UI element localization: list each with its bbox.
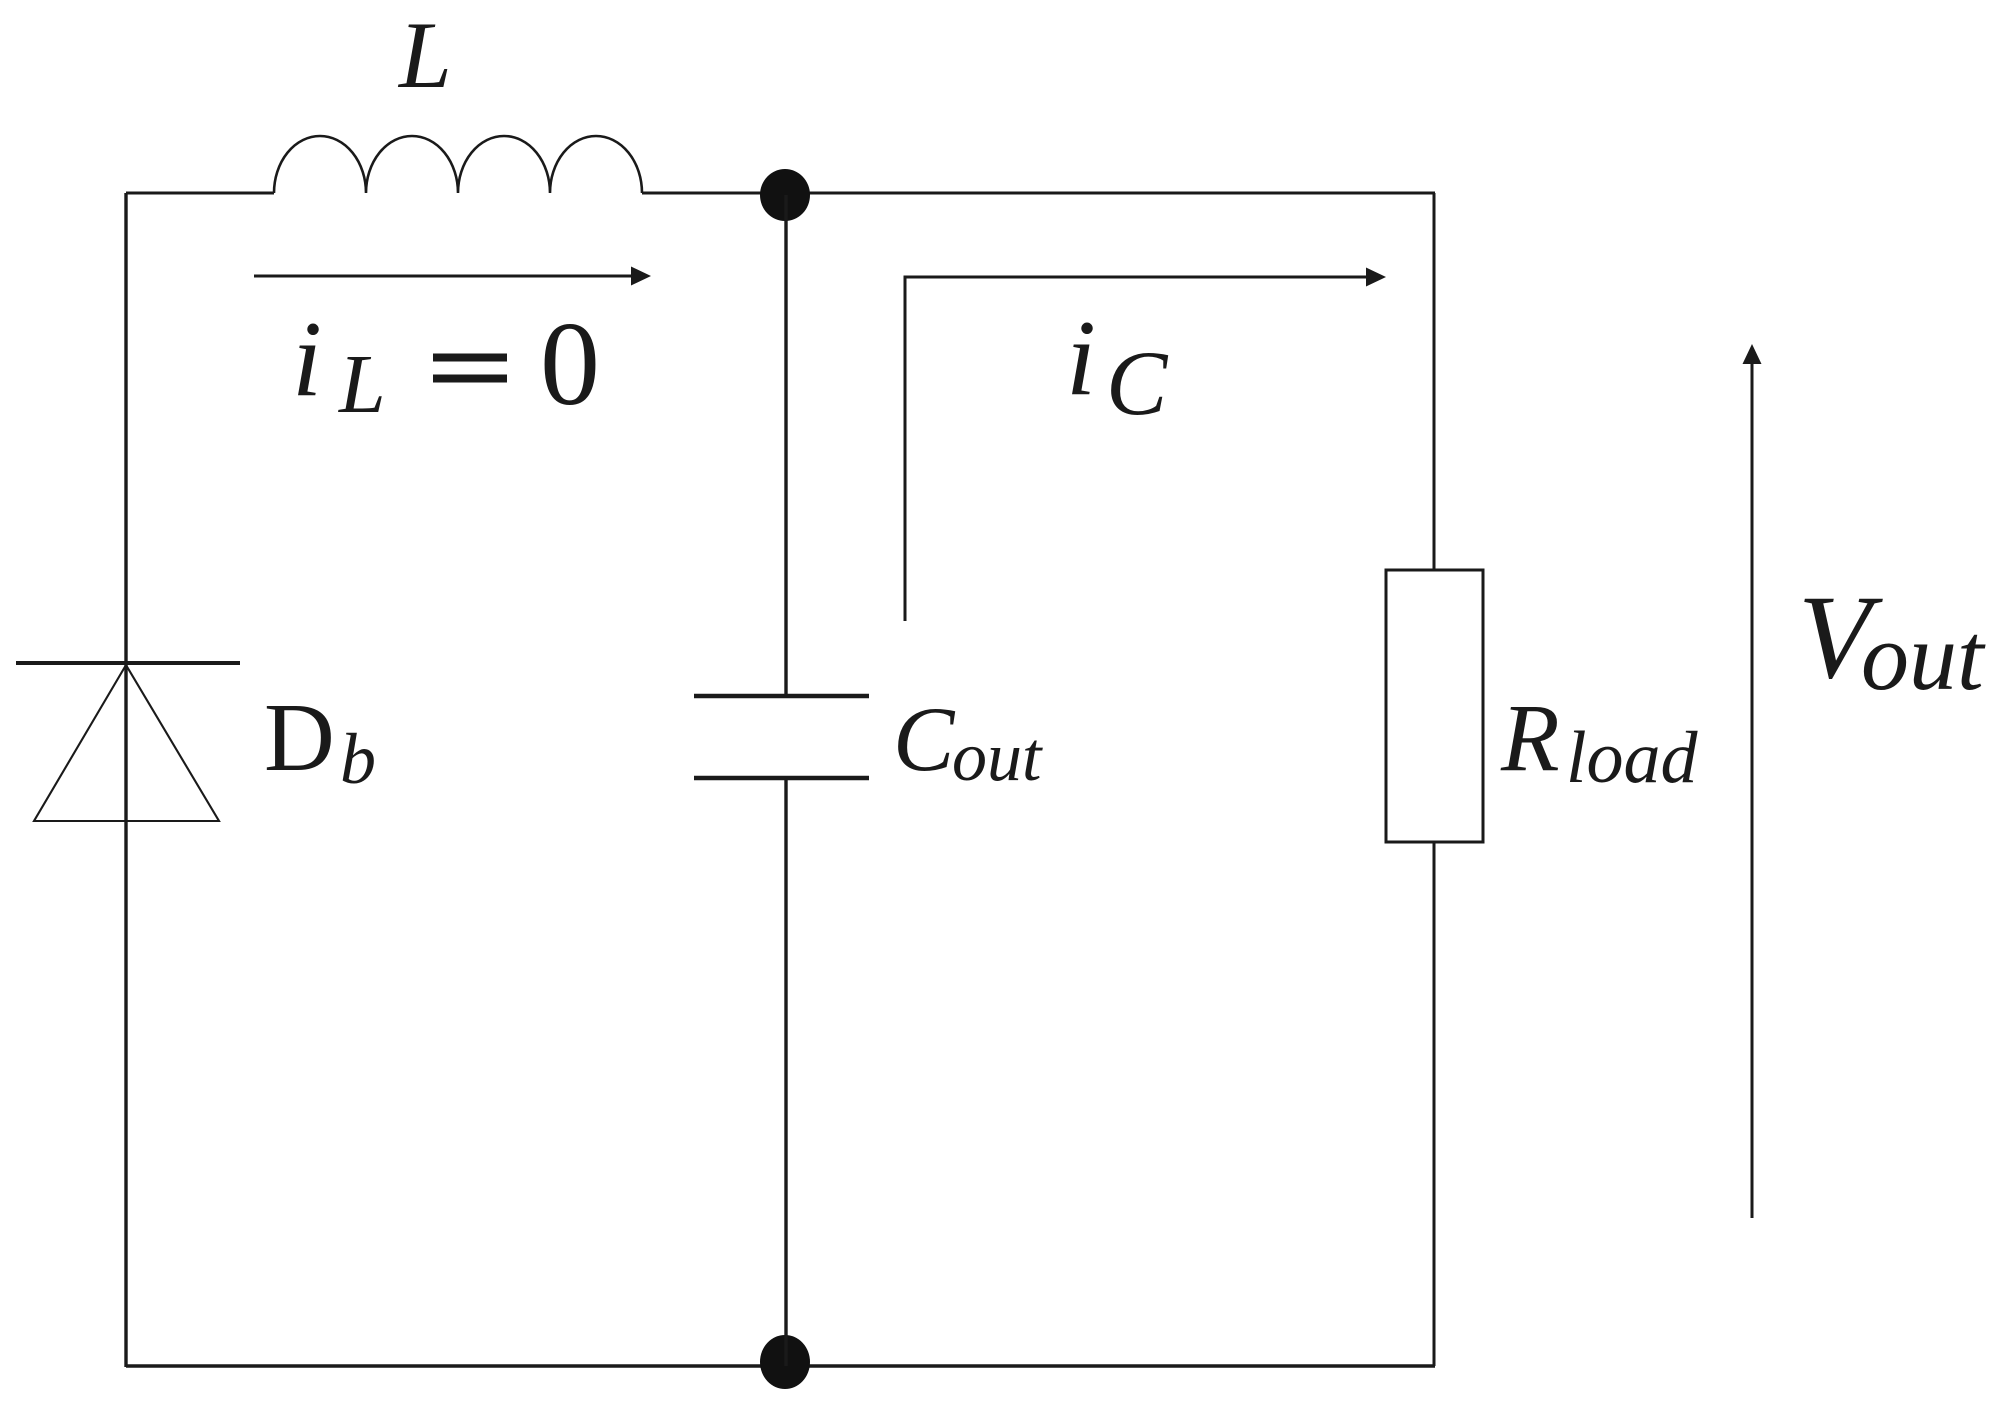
wire right lower <box>1433 842 1436 1366</box>
wire left <box>124 193 127 1367</box>
wire capacitor lower <box>784 778 787 1366</box>
svg-text:C: C <box>893 688 956 790</box>
arrow i_C <box>905 268 1386 622</box>
label D_b <box>264 684 376 799</box>
inductor L <box>274 136 642 193</box>
label R_load <box>1500 684 1699 799</box>
svg-text:load: load <box>1566 717 1699 799</box>
svg-text:C: C <box>1106 332 1169 434</box>
diode Db cathode bar <box>16 661 240 665</box>
capacitor Cout top plate <box>694 694 869 699</box>
node junction dot top <box>760 169 810 221</box>
arrow i_L <box>254 267 651 286</box>
label i_L = 0 <box>292 297 600 431</box>
svg-text:i: i <box>1066 299 1096 418</box>
capacitor Cout bottom plate <box>694 776 869 781</box>
wire bottom <box>126 1364 1435 1367</box>
svg-text:R: R <box>1500 684 1560 791</box>
node junction dot bottom <box>760 1335 810 1389</box>
wire capacitor upper <box>784 195 787 696</box>
svg-text:D: D <box>264 684 335 792</box>
label V_out <box>1798 570 1986 710</box>
resistor R_load <box>1386 570 1483 842</box>
arrow V_out <box>1743 344 1762 1218</box>
wire top (left segment, to inductor) <box>126 192 274 195</box>
wire top (inductor to right corner) <box>642 192 1435 195</box>
svg-text:i: i <box>292 300 322 419</box>
label C_out <box>893 688 1043 796</box>
svg-text:0: 0 <box>540 297 600 430</box>
svg-text:b: b <box>340 719 376 799</box>
diode Db triangle <box>34 665 219 821</box>
label i_C <box>1066 299 1169 434</box>
svg-text:L: L <box>338 338 386 431</box>
svg-text:out: out <box>1861 603 1986 710</box>
svg-text:L: L <box>397 2 452 108</box>
wire right upper <box>1433 193 1436 570</box>
svg-text:out: out <box>952 719 1043 796</box>
